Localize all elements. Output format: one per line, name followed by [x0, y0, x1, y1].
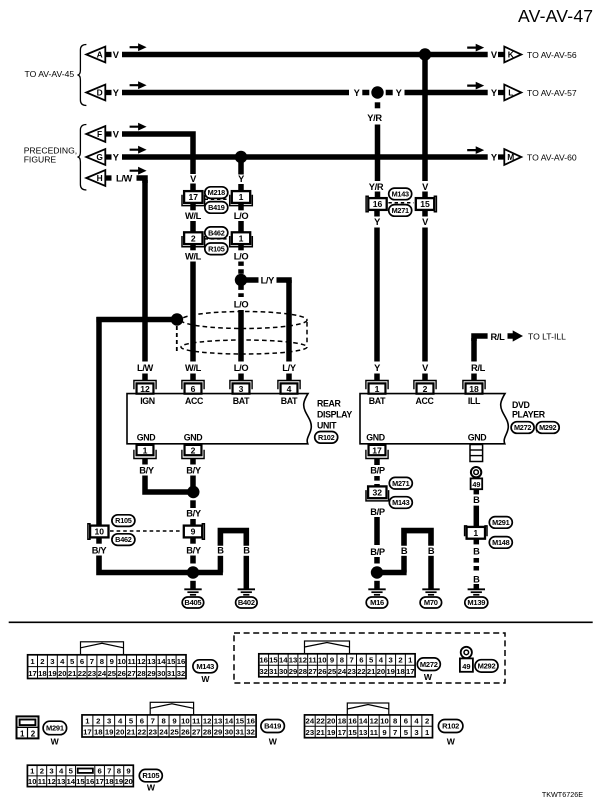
svg-text:R105: R105 — [142, 771, 159, 780]
svg-text:23: 23 — [347, 667, 356, 676]
svg-text:M218: M218 — [208, 188, 225, 197]
svg-text:31: 31 — [167, 669, 176, 678]
connector face M143 grid — [28, 655, 186, 679]
connector pin 1 B462 — [230, 232, 253, 247]
svg-text:1: 1 — [143, 445, 148, 455]
svg-text:L/O: L/O — [234, 252, 249, 262]
flow arrow wire F — [130, 123, 147, 131]
wire V drop from A node — [422, 57, 428, 181]
connector face M272 grid — [259, 654, 415, 677]
svg-text:26: 26 — [318, 667, 327, 676]
connector label B462 at 10 — [112, 534, 135, 546]
wire V stub into connector 17 — [190, 184, 196, 193]
wire L/O dashed above node — [238, 262, 244, 276]
svg-text:20: 20 — [327, 717, 336, 726]
svg-text:20: 20 — [58, 669, 67, 678]
wire Y/R dashed drop from D node — [375, 102, 381, 108]
svg-text:R105: R105 — [208, 244, 225, 253]
svg-text:M148: M148 — [492, 538, 509, 547]
wire W/L long drop — [190, 262, 196, 362]
shield cylinder right side — [306, 322, 308, 345]
svg-text:TO AV-AV-57: TO AV-AV-57 — [527, 88, 577, 98]
svg-text:14: 14 — [66, 777, 75, 786]
wire B/Y dashed below node — [190, 500, 196, 508]
wire B/P into ground node — [374, 557, 380, 564]
svg-text:27: 27 — [308, 667, 317, 676]
svg-text:10: 10 — [117, 657, 126, 666]
dashed shield drain drop — [176, 326, 178, 351]
ground label M16 — [366, 597, 388, 608]
svg-text:R105: R105 — [115, 516, 132, 525]
wire W/L link — [190, 221, 196, 233]
svg-text:6: 6 — [404, 717, 408, 726]
svg-text:B/Y: B/Y — [92, 546, 108, 556]
connector pin 1 M218 — [230, 191, 253, 206]
svg-text:21: 21 — [316, 728, 325, 737]
wire V row F elbow — [122, 134, 193, 174]
svg-text:32: 32 — [259, 667, 268, 676]
svg-text:Y/R: Y/R — [369, 182, 384, 192]
wire B dashed — [474, 558, 480, 571]
svg-text:R102: R102 — [318, 433, 335, 442]
svg-text:M292: M292 — [539, 423, 556, 432]
svg-text:B402: B402 — [238, 598, 255, 607]
svg-text:15: 15 — [348, 728, 357, 737]
svg-text:22: 22 — [316, 717, 325, 726]
wire B to ground B402 — [244, 556, 250, 589]
ground symbol B405 — [184, 589, 201, 595]
svg-text:21: 21 — [367, 667, 376, 676]
junction node on wire G — [235, 151, 247, 163]
ground symbol M139 — [468, 589, 485, 595]
svg-text:AV-AV-47: AV-AV-47 — [518, 6, 593, 26]
junction node B/P ground — [371, 566, 383, 578]
ground label M139 — [465, 597, 488, 608]
svg-text:29: 29 — [289, 667, 298, 676]
svg-text:16: 16 — [348, 717, 357, 726]
svg-text:16: 16 — [373, 199, 383, 209]
svg-text:4: 4 — [118, 716, 123, 725]
svg-text:10: 10 — [318, 656, 327, 665]
svg-text:1: 1 — [239, 233, 244, 243]
svg-text:15: 15 — [76, 777, 85, 786]
junction node on wire A — [419, 48, 431, 60]
connector face B419 grid — [82, 715, 256, 737]
wire V long drop — [422, 228, 428, 362]
svg-text:14: 14 — [225, 716, 234, 725]
svg-text:M271: M271 — [392, 206, 409, 215]
svg-text:B/Y: B/Y — [186, 546, 202, 556]
pin 12 IGN — [134, 381, 156, 394]
svg-text:15: 15 — [269, 656, 278, 665]
wire V stub below 15 — [422, 210, 428, 217]
svg-text:18: 18 — [38, 669, 47, 678]
wire B/P horizontal to ladder — [377, 570, 407, 576]
wire GND1 stub — [142, 459, 148, 465]
svg-text:L/O: L/O — [234, 211, 249, 221]
svg-text:19: 19 — [327, 728, 336, 737]
svg-text:28: 28 — [298, 667, 307, 676]
connector face label R105 — [139, 769, 162, 781]
svg-text:B419: B419 — [264, 722, 281, 731]
unit connector label R102 — [315, 432, 338, 444]
shield cylinder lower ellipse — [181, 340, 307, 354]
junction node B/Y — [187, 486, 199, 498]
svg-text:W/L: W/L — [185, 211, 202, 221]
connector pin 17 — [182, 191, 205, 206]
svg-text:10: 10 — [380, 717, 389, 726]
wire B ladder M70 — [404, 531, 431, 546]
wire GND2 stub — [190, 459, 196, 465]
svg-text:4: 4 — [60, 657, 65, 666]
svg-text:24: 24 — [159, 727, 168, 736]
svg-text:29: 29 — [214, 727, 223, 736]
ground symbol M70 — [422, 589, 439, 595]
dashed box DVD connectors — [234, 633, 505, 683]
connector triangle A — [86, 47, 111, 63]
wire B/P mid drop — [374, 517, 380, 545]
connector pin 1 M291 — [465, 526, 487, 539]
svg-text:L/Y: L/Y — [261, 275, 276, 285]
connector label M271 at 32 — [389, 477, 412, 489]
svg-text:29: 29 — [147, 669, 156, 678]
svg-text:L/O: L/O — [234, 363, 249, 373]
unit connector label M272 — [511, 422, 534, 434]
wire stub below 1 b462 — [238, 244, 244, 250]
svg-text:B/Y: B/Y — [186, 509, 202, 519]
svg-text:R/L: R/L — [491, 332, 506, 342]
svg-text:3: 3 — [389, 656, 393, 665]
ground label B405 — [182, 597, 204, 608]
connector face M272 clip — [305, 641, 350, 654]
svg-text:11: 11 — [38, 777, 47, 786]
svg-text:PLAYER: PLAYER — [512, 410, 546, 420]
svg-text:7: 7 — [393, 728, 397, 737]
connector face M291 — [17, 716, 39, 738]
wire shield ground horizontal — [96, 317, 172, 323]
svg-text:32: 32 — [177, 669, 186, 678]
wire L/W row H elbow — [137, 178, 146, 183]
svg-text:5: 5 — [369, 656, 374, 665]
svg-text:M291: M291 — [46, 724, 64, 733]
svg-text:M143: M143 — [392, 498, 409, 507]
svg-text:B/P: B/P — [370, 466, 385, 476]
wire B stub left leg — [218, 556, 224, 573]
svg-text:6: 6 — [359, 656, 363, 665]
wire L/O dashed below node — [238, 286, 244, 298]
svg-text:23: 23 — [88, 669, 97, 678]
svg-text:K: K — [508, 50, 514, 60]
svg-text:49: 49 — [472, 480, 480, 489]
svg-text:W: W — [424, 672, 433, 682]
svg-text:GND: GND — [184, 433, 203, 443]
connector triangle H — [86, 170, 111, 186]
svg-text:9: 9 — [172, 716, 176, 725]
svg-text:18: 18 — [105, 777, 114, 786]
svg-text:16: 16 — [86, 777, 95, 786]
svg-text:10: 10 — [181, 716, 190, 725]
svg-text:17: 17 — [338, 728, 347, 737]
pin 6 ACC — [182, 381, 204, 394]
svg-text:W: W — [51, 736, 60, 746]
svg-text:6: 6 — [140, 716, 144, 725]
wire V row A — [122, 52, 488, 58]
svg-text:14: 14 — [359, 717, 368, 726]
svg-text:32: 32 — [373, 488, 383, 498]
svg-text:15: 15 — [235, 716, 244, 725]
svg-text:24: 24 — [306, 717, 315, 726]
connector face 49 box — [460, 658, 473, 671]
svg-text:3: 3 — [50, 657, 54, 666]
connector face label M291 — [43, 721, 67, 735]
svg-text:TO AV-AV-56: TO AV-AV-56 — [527, 50, 577, 60]
connector label B419 — [205, 202, 228, 214]
wire B/Y elbow from 10 — [99, 556, 223, 573]
connector face label M292 — [475, 660, 498, 672]
svg-text:22: 22 — [138, 727, 147, 736]
connector label R105 inline — [205, 243, 228, 255]
connector pin 15 — [416, 196, 437, 211]
svg-text:17: 17 — [95, 777, 104, 786]
svg-text:DISPLAY: DISPLAY — [317, 410, 352, 420]
svg-text:32: 32 — [246, 727, 255, 736]
connector triangle M — [498, 149, 521, 165]
svg-text:M272: M272 — [420, 660, 438, 669]
svg-text:12: 12 — [140, 384, 150, 394]
connector label R105 at 10 — [112, 515, 135, 527]
svg-text:17: 17 — [372, 445, 382, 455]
ground symbol M16 — [368, 589, 385, 595]
svg-text:9: 9 — [126, 766, 130, 775]
junction node B/Y ground — [187, 566, 199, 578]
svg-text:B/Y: B/Y — [186, 466, 202, 476]
svg-text:TO LT-ILL: TO LT-ILL — [528, 332, 566, 342]
svg-text:13: 13 — [147, 657, 156, 666]
connector triangle D — [86, 85, 111, 101]
connector pin 16 — [366, 196, 387, 211]
svg-text:1: 1 — [30, 766, 35, 775]
connector face R102 clip — [347, 703, 389, 715]
svg-text:M292: M292 — [478, 662, 496, 671]
ground label B402 — [236, 597, 258, 608]
pin 4 BAT — [278, 381, 300, 394]
svg-text:27: 27 — [192, 727, 201, 736]
connector face R105 grid — [27, 765, 133, 786]
wire B stub to ground M139 — [474, 584, 480, 589]
flow arrow before K — [467, 44, 484, 52]
svg-text:B: B — [473, 495, 480, 505]
svg-text:ACC: ACC — [185, 396, 204, 406]
svg-text:1: 1 — [20, 729, 25, 738]
svg-text:M291: M291 — [492, 518, 509, 527]
connector label M148 inline — [489, 537, 512, 549]
svg-text:GND: GND — [468, 433, 487, 443]
svg-text:28: 28 — [203, 727, 212, 736]
shield cylinder upper ellipse — [181, 312, 307, 329]
svg-text:D: D — [97, 88, 103, 98]
svg-text:4: 4 — [379, 656, 384, 665]
svg-text:G: G — [96, 152, 103, 162]
flow arrow wire G — [130, 146, 147, 154]
svg-text:22: 22 — [357, 667, 366, 676]
svg-text:15: 15 — [167, 657, 176, 666]
svg-text:19: 19 — [386, 667, 395, 676]
flow arrow before L — [467, 82, 484, 90]
svg-text:30: 30 — [279, 667, 288, 676]
svg-text:B: B — [473, 574, 480, 584]
svg-text:27: 27 — [127, 669, 136, 678]
svg-text:18: 18 — [338, 717, 347, 726]
pin 3 BAT — [230, 381, 252, 394]
connector label M271 — [389, 205, 412, 217]
wire stub below 2 — [190, 244, 196, 250]
svg-text:L/W: L/W — [137, 363, 154, 373]
unit connector label M292 — [536, 422, 559, 434]
wire stub below 17 — [190, 203, 196, 210]
svg-text:FIGURE: FIGURE — [24, 154, 57, 164]
svg-text:25: 25 — [107, 669, 116, 678]
dashed link connector 2-1 — [205, 238, 230, 240]
svg-text:6: 6 — [97, 766, 101, 775]
svg-text:8: 8 — [100, 657, 105, 666]
wire stub to ground M16 — [374, 581, 380, 590]
svg-text:W/L: W/L — [185, 252, 202, 262]
wire V stub into connector 15 — [422, 192, 428, 199]
svg-text:W: W — [269, 736, 278, 746]
svg-text:19: 19 — [48, 669, 57, 678]
svg-text:12: 12 — [298, 656, 307, 665]
svg-text:14: 14 — [279, 656, 288, 665]
wire stub below 1 m291 — [474, 539, 480, 544]
svg-text:W: W — [447, 736, 456, 746]
svg-text:11: 11 — [308, 656, 317, 665]
svg-text:2: 2 — [191, 233, 196, 243]
svg-text:B419: B419 — [208, 203, 225, 212]
svg-text:TO AV-AV-45: TO AV-AV-45 — [25, 69, 75, 79]
svg-text:R102: R102 — [442, 722, 459, 731]
svg-text:3: 3 — [239, 384, 244, 394]
svg-text:8: 8 — [340, 656, 345, 665]
pin 1 BAT — [366, 381, 388, 394]
svg-text:TKWT6726E: TKWT6726E — [542, 790, 583, 799]
svg-text:1: 1 — [473, 528, 478, 538]
svg-text:7: 7 — [349, 656, 353, 665]
connector triangle F — [86, 126, 111, 142]
connector label M143 — [389, 188, 412, 200]
wire L/W drop — [142, 180, 148, 362]
svg-text:12: 12 — [47, 777, 56, 786]
svg-text:H: H — [97, 173, 103, 183]
svg-text:UNIT: UNIT — [317, 421, 337, 431]
svg-text:BAT: BAT — [281, 396, 298, 406]
wire Y stub above BAT — [374, 210, 380, 217]
svg-text:26: 26 — [181, 727, 190, 736]
wire Y/R drop — [375, 125, 381, 182]
svg-text:3: 3 — [414, 728, 418, 737]
svg-text:13: 13 — [359, 728, 368, 737]
connector label B462 — [205, 227, 228, 239]
wire Y long drop — [374, 228, 380, 362]
wire L/Y elbow — [277, 280, 290, 283]
svg-text:11: 11 — [192, 716, 201, 725]
svg-text:BAT: BAT — [233, 396, 250, 406]
svg-text:24: 24 — [98, 669, 107, 678]
svg-text:15: 15 — [420, 199, 430, 209]
svg-text:R/L: R/L — [471, 363, 486, 373]
pin 18 ILL — [463, 381, 485, 394]
brace group TO AV-AV-45 — [77, 45, 86, 106]
pin 17 GND — [366, 445, 388, 459]
svg-text:M271: M271 — [392, 479, 409, 488]
connector pin 2 — [182, 232, 205, 247]
eyelet terminal symbol — [471, 467, 481, 477]
svg-text:3: 3 — [107, 716, 111, 725]
connector triangle L — [498, 85, 521, 101]
wire B/Y left drop to connector 10 — [96, 317, 102, 528]
svg-text:25: 25 — [328, 667, 337, 676]
svg-text:17: 17 — [406, 667, 415, 676]
svg-text:13: 13 — [57, 777, 66, 786]
svg-text:1: 1 — [30, 657, 35, 666]
svg-text:6: 6 — [80, 657, 84, 666]
wire L/O link — [238, 221, 244, 233]
wire L/O drop to shield — [238, 310, 244, 362]
svg-text:25: 25 — [170, 727, 179, 736]
wire B stub m70 left leg — [401, 556, 407, 573]
wire L/Y drop — [286, 280, 292, 362]
svg-text:7: 7 — [151, 716, 155, 725]
svg-text:L/Y: L/Y — [282, 363, 297, 373]
svg-text:2: 2 — [423, 384, 428, 394]
svg-text:24: 24 — [338, 667, 347, 676]
svg-text:8: 8 — [117, 766, 122, 775]
wire L/Y stub right of node — [245, 277, 259, 283]
arrow to LT-ILL — [508, 330, 524, 341]
connector label M291 inline — [489, 517, 512, 529]
svg-text:2: 2 — [96, 716, 100, 725]
connector face R102 grid — [305, 715, 433, 738]
svg-text:9: 9 — [110, 657, 114, 666]
svg-text:4: 4 — [287, 384, 292, 394]
svg-text:M70: M70 — [424, 598, 438, 607]
svg-text:B: B — [243, 546, 250, 556]
pin 1 GND — [134, 445, 156, 459]
svg-text:1: 1 — [408, 656, 413, 665]
wire Y row D right — [405, 90, 488, 96]
svg-text:B405: B405 — [184, 598, 201, 607]
svg-text:B: B — [401, 546, 408, 556]
svg-text:7: 7 — [90, 657, 94, 666]
svg-text:M272: M272 — [514, 423, 531, 432]
dashed link connector 10-9 — [110, 530, 182, 532]
wire Y stub into connector 1 — [238, 159, 244, 175]
svg-text:19: 19 — [115, 777, 124, 786]
svg-text:5: 5 — [404, 728, 409, 737]
svg-text:20: 20 — [124, 777, 133, 786]
connector pin 49 — [471, 478, 483, 489]
brace group PRECEDING FIGURE — [77, 125, 86, 191]
svg-text:9: 9 — [191, 527, 196, 537]
svg-text:B/P: B/P — [370, 547, 385, 557]
svg-text:17: 17 — [189, 192, 199, 202]
svg-text:7: 7 — [107, 766, 111, 775]
wire stub below 9 — [190, 537, 196, 544]
svg-text:M: M — [507, 152, 514, 162]
wire B ladder B402 — [220, 531, 246, 546]
pin 2 GND — [182, 445, 204, 459]
svg-text:30: 30 — [157, 669, 166, 678]
junction node L/O - L/Y — [235, 274, 247, 286]
